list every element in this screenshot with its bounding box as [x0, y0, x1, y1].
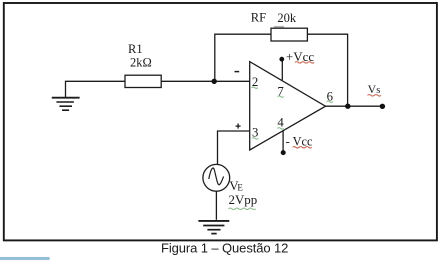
svg-text:- Vcc: - Vcc [286, 134, 313, 148]
svg-text:E: E [237, 183, 243, 193]
svg-text:Figura 1 – Questão 12: Figura 1 – Questão 12 [161, 240, 288, 255]
svg-text:20k: 20k [277, 11, 297, 25]
svg-text:2kΩ: 2kΩ [130, 55, 152, 69]
svg-text:R1: R1 [128, 42, 143, 56]
svg-text:RF: RF [251, 11, 266, 25]
svg-text:2Vpp: 2Vpp [229, 193, 258, 207]
